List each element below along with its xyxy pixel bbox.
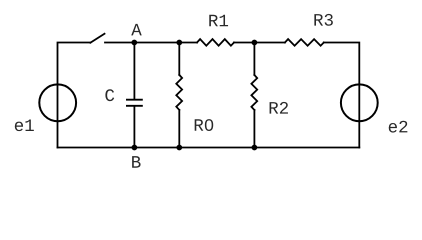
wire R1 to R2 node xyxy=(234,42,254,44)
junction dot top R2 xyxy=(252,40,258,46)
label R2 xyxy=(270,102,288,114)
label C xyxy=(105,89,114,101)
label R3 xyxy=(314,14,333,26)
label R1 xyxy=(209,15,228,27)
wire bottom rail xyxy=(58,147,360,149)
resistor R0 xyxy=(176,75,182,110)
resistor R2 xyxy=(251,75,257,110)
wire R2 node to R3 xyxy=(254,42,285,44)
wire R3 to right vertical xyxy=(324,43,360,148)
label B xyxy=(132,156,140,168)
source e2 xyxy=(341,84,378,121)
label e1 xyxy=(15,119,34,131)
node A junction dot xyxy=(131,40,137,46)
resistor R3 xyxy=(285,39,324,46)
wire R2 top lead xyxy=(253,43,255,76)
wire left vertical and top-left xyxy=(58,43,91,148)
switch S1 blade xyxy=(90,34,104,43)
source e1 xyxy=(39,84,76,121)
label R0 xyxy=(195,119,214,131)
resistor R1 xyxy=(197,39,234,46)
wire R0 top lead xyxy=(178,43,180,75)
wire R2 bottom lead xyxy=(253,110,255,148)
wire capacitor bottom lead xyxy=(133,107,135,148)
wire capacitor top lead xyxy=(133,43,135,99)
junction dot bottom R2 xyxy=(252,145,258,151)
wire node A to R0 branch xyxy=(134,42,179,44)
capacitor C plates xyxy=(127,100,142,106)
junction dot bottom C xyxy=(132,145,138,151)
label A xyxy=(131,24,142,36)
label e2 xyxy=(389,121,408,133)
junction dot bottom R0 xyxy=(176,145,182,151)
wire R0 bottom lead xyxy=(178,110,180,148)
wire switch to node A xyxy=(105,42,134,44)
wire R0 node to R1 xyxy=(179,42,197,44)
junction dot top R0 xyxy=(176,40,182,46)
